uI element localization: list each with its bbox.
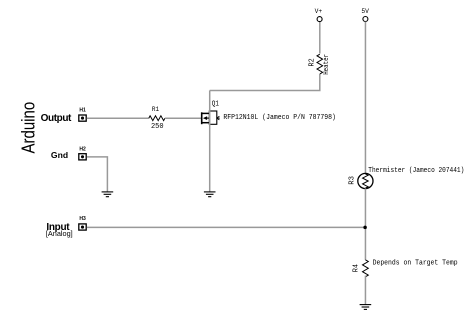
label Q1 part number [223,114,336,122]
label Gnd [51,150,68,160]
svg-text:5V: 5V [361,8,369,15]
svg-text:Q1: Q1 [212,100,220,108]
svg-text:RFP12N10L (Jameco P/N 787798): RFP12N10L (Jameco P/N 787798) [223,114,336,122]
svg-text:R2: R2 [308,58,316,67]
resistor R2 [308,54,331,75]
svg-text:R3: R3 [349,176,357,185]
wire R3 to R4 [364,188,366,259]
label R4 note [373,260,458,268]
wire H2 to ground [87,157,108,192]
wire Q1 drain/source vertical [209,91,211,192]
thermistor R3 [349,173,373,188]
svg-text:H2: H2 [79,146,86,152]
label Output [41,113,72,124]
header H2 [79,146,86,160]
wire input H3 to node [87,226,366,228]
header H1 [79,108,86,122]
transistor Q1 [202,100,220,124]
svg-text:H3: H3 [79,216,86,222]
wire R2 to V+ [319,22,321,54]
svg-text:Output: Output [41,113,72,124]
svg-text:Heater: Heater [323,54,331,75]
svg-text:Thermister (Jameco 207441): Thermister (Jameco 207441) [368,167,464,175]
wire R1 to Q1 gate [165,117,201,119]
ground R4 [360,305,372,310]
resistor R1 [149,106,165,131]
label thermistor part [368,167,464,175]
label Input [46,222,70,233]
svg-text:R1: R1 [152,106,160,113]
svg-text:Arduino: Arduino [18,102,39,154]
label [Analog] [46,229,73,238]
node junction [363,226,367,230]
terminal V+ [315,8,323,22]
svg-text:Depends on Target Temp: Depends on Target Temp [373,260,458,268]
svg-text:[Analog]: [Analog] [46,229,73,238]
ground H2 [102,192,114,197]
svg-text:Gnd: Gnd [51,150,68,160]
ground Q1 source [204,192,216,197]
terminal 5V [361,8,369,22]
wire 5V to R3 [364,22,366,174]
wire R4 to ground [364,276,366,305]
svg-text:H1: H1 [79,108,86,114]
label Arduino [18,102,39,154]
resistor R4 [353,260,369,277]
wire drain to R2 [210,74,320,91]
svg-text:250: 250 [151,123,164,131]
svg-text:R4: R4 [353,264,361,273]
svg-text:V+: V+ [315,8,323,15]
header H3 [79,216,86,230]
wire H1 to R1 [87,117,149,119]
